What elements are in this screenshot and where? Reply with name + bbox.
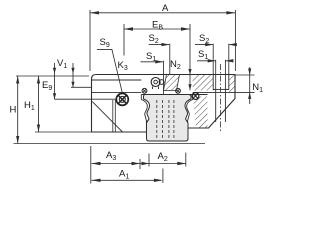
endplate top seam bbox=[92, 79, 142, 81]
endplate diagonal bbox=[92, 102, 122, 132]
svg-text:A2: A2 bbox=[158, 151, 168, 163]
svg-text:E9: E9 bbox=[42, 80, 52, 92]
svg-text:H1: H1 bbox=[24, 100, 35, 112]
mounting hole S2/S1 counterbore bbox=[213, 75, 229, 123]
dim EB bbox=[124, 28, 190, 30]
H arrows bbox=[16, 76, 19, 84]
dashed hole lines in rail bbox=[157, 100, 174, 138]
section screw bbox=[192, 93, 199, 100]
N2 arrows bbox=[188, 84, 191, 90]
dim A3 row bbox=[92, 163, 186, 165]
hatched section: top web right bbox=[193, 75, 214, 91]
V1 bottom arrow bbox=[71, 82, 74, 88]
A arrows bbox=[90, 11, 99, 14]
hatched section: top web centre bbox=[164, 75, 180, 91]
arrowheads bbox=[16, 11, 251, 182]
E9 bottom arrow bbox=[53, 93, 56, 99]
dim S1 right bbox=[197, 60, 216, 62]
svg-text:S1: S1 bbox=[198, 49, 208, 61]
H1 arrows bbox=[37, 76, 40, 84]
carriage body outline bbox=[92, 75, 236, 133]
dim S1 left bbox=[141, 61, 164, 63]
dim E9 vertical bbox=[54, 63, 56, 99]
svg-text:S9: S9 bbox=[100, 37, 110, 49]
S1 right arrows bbox=[208, 59, 216, 62]
N1 arrows bbox=[248, 69, 251, 76]
svg-text:A: A bbox=[162, 3, 169, 14]
dim H bbox=[17, 76, 19, 144]
baseline bbox=[14, 143, 206, 145]
centre line of bolt hole bbox=[220, 64, 222, 132]
carriage window gap around rail (left) bbox=[141, 95, 207, 122]
svg-text:S2: S2 bbox=[149, 33, 159, 45]
step line on left face bbox=[92, 91, 142, 93]
dim S2 left bbox=[149, 44, 170, 46]
dim S2 right bbox=[195, 44, 213, 46]
dimension lines bbox=[14, 10, 255, 184]
endplate screw left bbox=[142, 88, 147, 93]
hatched section: top right corner bbox=[229, 75, 235, 93]
dim V1 vertical bbox=[72, 63, 74, 87]
dim N1 extensions bbox=[235, 74, 255, 76]
top surface extension bbox=[16, 75, 89, 77]
A3 arrows bbox=[92, 162, 101, 165]
A1 arrows bbox=[92, 179, 101, 182]
A2 arrows bbox=[142, 162, 150, 165]
S9 leader bbox=[97, 49, 122, 92]
carriage window gap around rail (right) bbox=[187, 95, 193, 122]
left lower extension vertical bbox=[90, 146, 92, 184]
svg-text:EB: EB bbox=[152, 20, 163, 32]
S2 left arrow bbox=[162, 43, 170, 46]
svg-text:A3: A3 bbox=[106, 150, 116, 162]
svg-text:N1: N1 bbox=[252, 82, 263, 94]
svg-text:A1: A1 bbox=[119, 169, 129, 181]
E9 axis extension bbox=[55, 98, 117, 100]
V1 step extension bbox=[71, 86, 91, 88]
dim A bbox=[90, 12, 235, 14]
V1 E9 top arrows bbox=[53, 68, 56, 74]
grease nipple bbox=[151, 78, 164, 90]
S1 left arrow bbox=[155, 60, 163, 63]
endplate screw right bbox=[176, 88, 181, 93]
svg-text:K3: K3 bbox=[118, 60, 128, 72]
S2 right arrows bbox=[205, 43, 213, 46]
svg-text:H: H bbox=[10, 105, 17, 116]
dim A2 extension verticals bbox=[148, 154, 150, 167]
EB arrows bbox=[124, 27, 133, 30]
svg-text:N2: N2 bbox=[170, 59, 181, 71]
lube screw S9 bbox=[116, 93, 128, 105]
seam line right side bbox=[193, 91, 235, 93]
hatched section: right leg bbox=[193, 97, 208, 128]
endplate channel double line bbox=[113, 100, 116, 132]
dim H1 bbox=[38, 76, 40, 132]
svg-text:S2: S2 bbox=[199, 33, 209, 45]
dim A1 row bbox=[92, 179, 162, 181]
rail cross-section bbox=[144, 95, 192, 142]
rail top / window top line bbox=[141, 94, 207, 96]
svg-text:S1: S1 bbox=[146, 51, 156, 63]
svg-text:V1: V1 bbox=[57, 58, 67, 70]
